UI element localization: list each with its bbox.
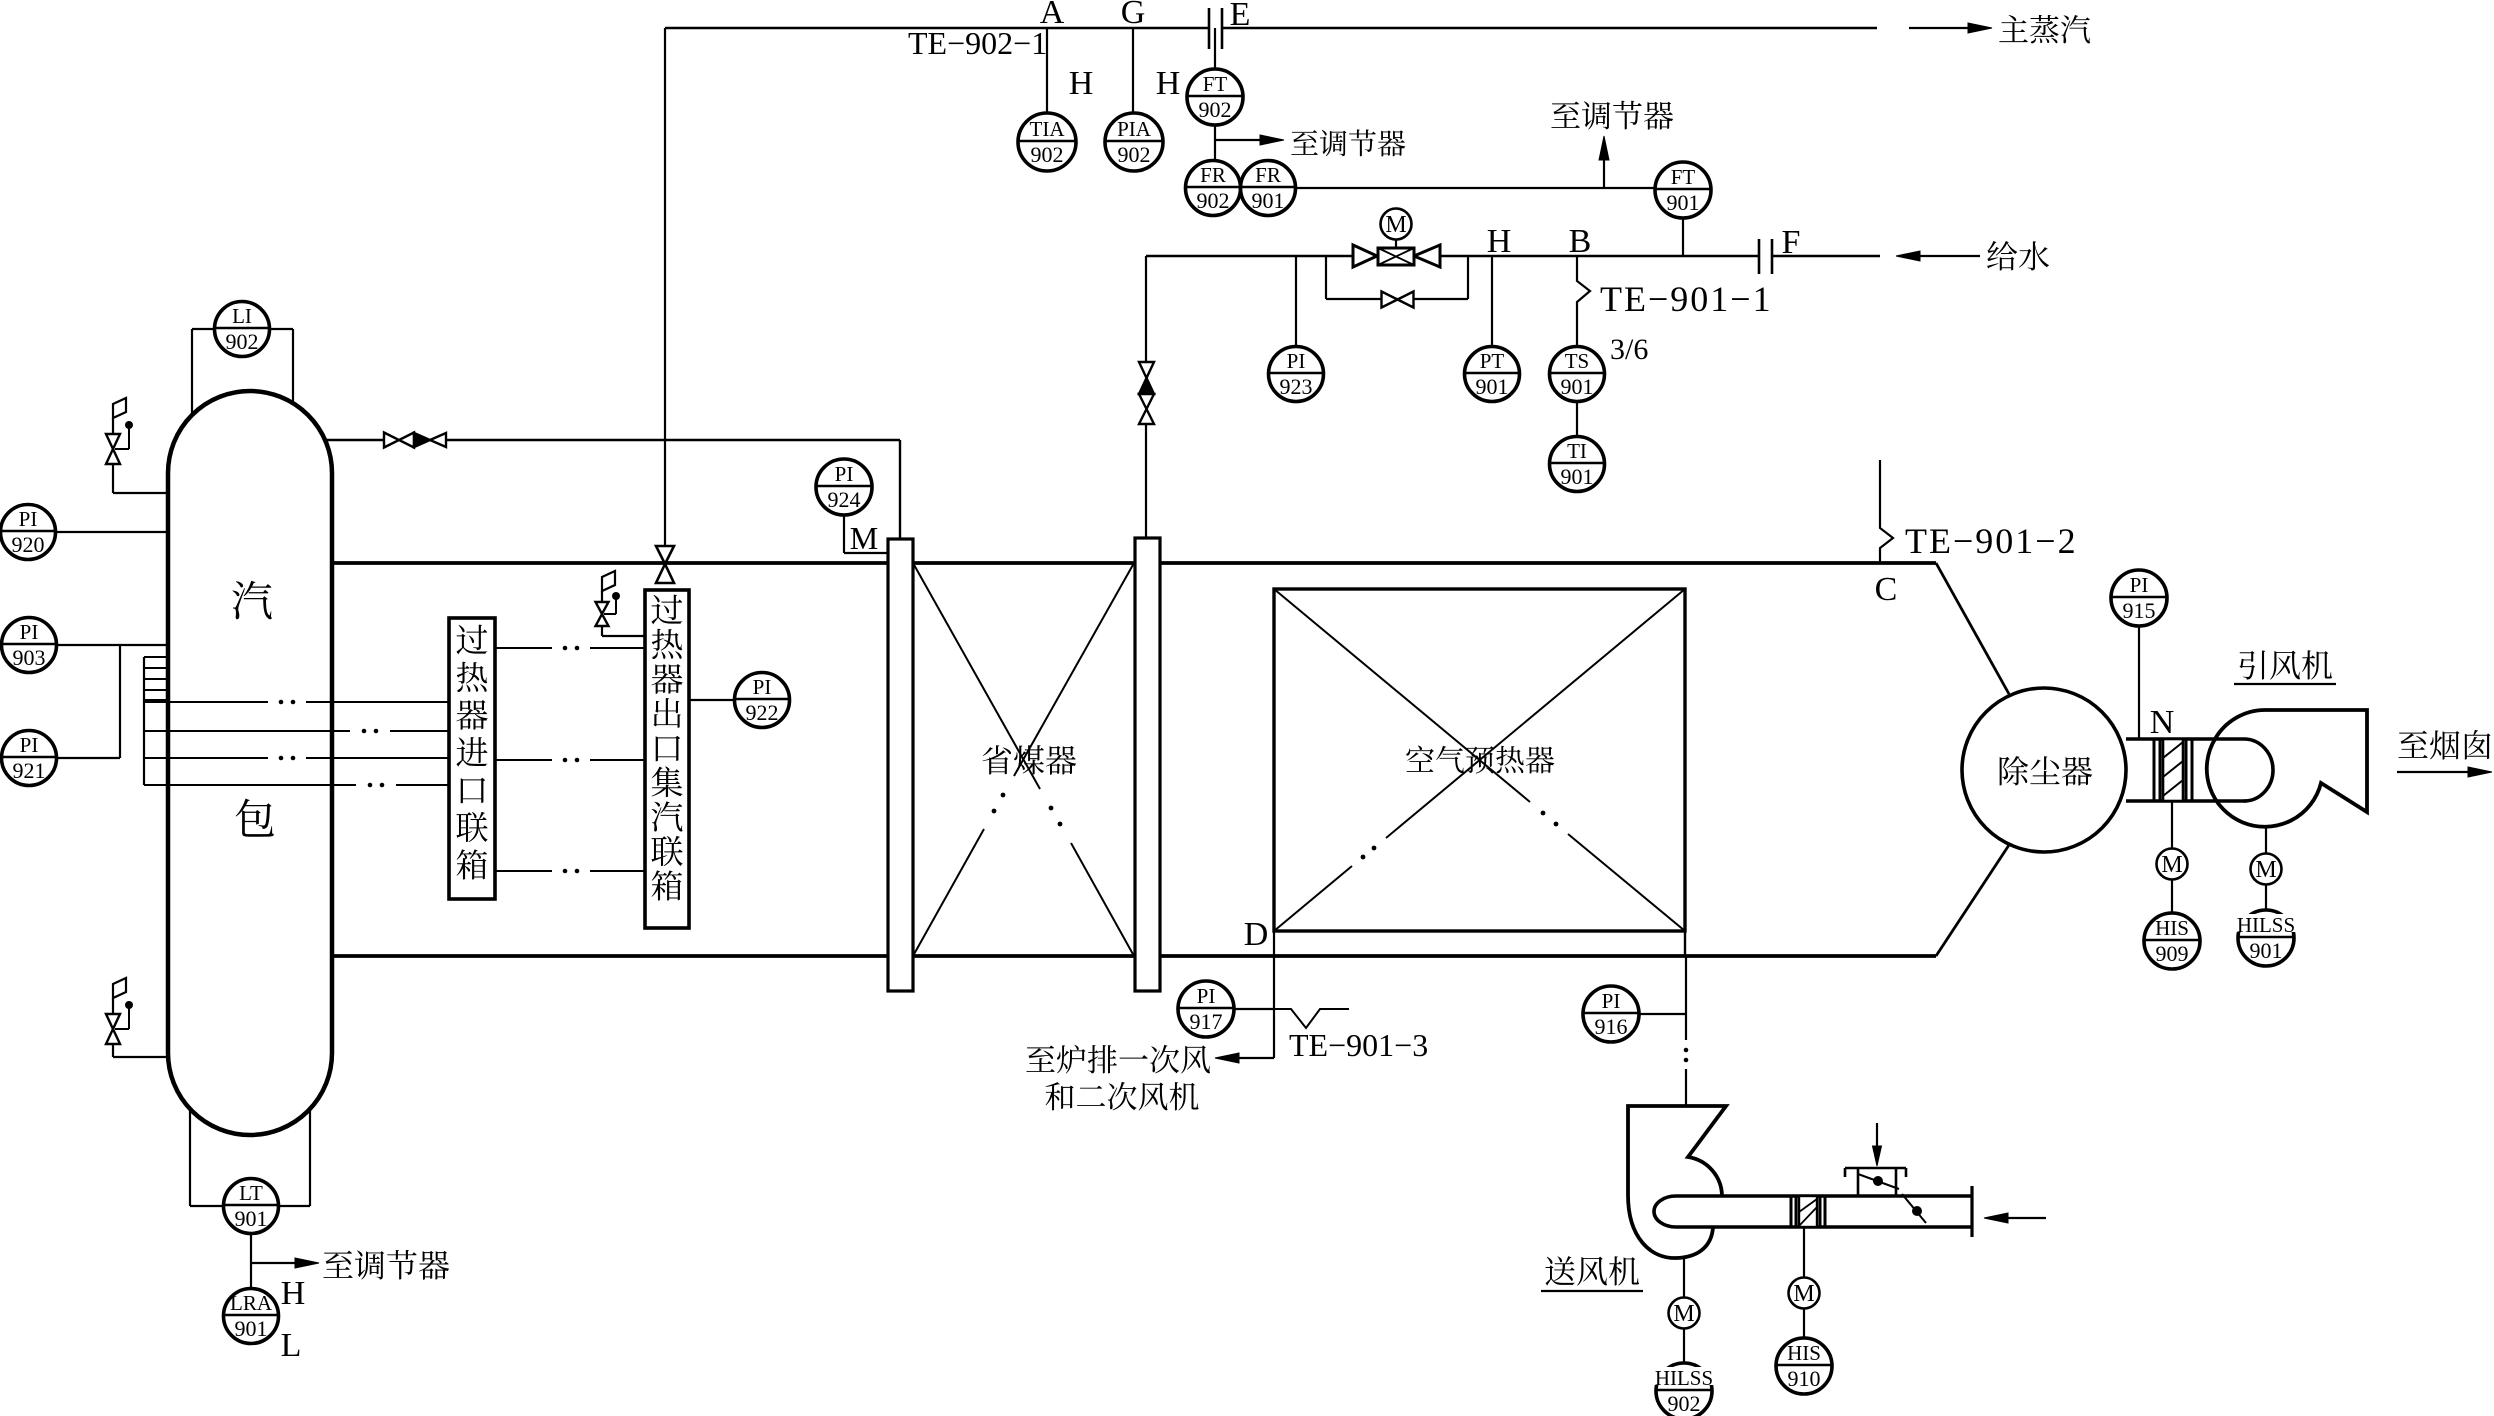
svg-text:LI: LI <box>232 304 252 328</box>
svg-text:902: 902 <box>226 329 259 354</box>
svg-text:TE−902−1: TE−902−1 <box>908 25 1047 61</box>
svg-text:924: 924 <box>828 487 861 512</box>
svg-text:917: 917 <box>1190 1009 1223 1034</box>
svg-text:HILSS: HILSS <box>2237 913 2295 937</box>
svg-text:LRA: LRA <box>230 1291 273 1315</box>
svg-text:M: M <box>2161 852 2182 878</box>
svg-text:901: 901 <box>1476 374 1509 399</box>
svg-text:LT: LT <box>239 1181 263 1205</box>
svg-text:B: B <box>1569 223 1592 260</box>
svg-text:H: H <box>1487 223 1512 260</box>
svg-text:902: 902 <box>1199 97 1232 122</box>
svg-text:PI: PI <box>1602 989 1621 1013</box>
svg-text:PT: PT <box>1480 349 1505 373</box>
svg-text:901: 901 <box>235 1316 268 1341</box>
svg-text:M: M <box>1673 1301 1694 1327</box>
svg-text:FR: FR <box>1200 163 1226 187</box>
svg-text:902: 902 <box>1118 142 1151 167</box>
svg-text:TS: TS <box>1565 349 1590 373</box>
svg-text:E: E <box>1230 0 1251 33</box>
svg-text:920: 920 <box>12 532 45 557</box>
svg-text:HIS: HIS <box>2155 916 2189 940</box>
svg-text:FR: FR <box>1255 163 1281 187</box>
svg-text:H: H <box>1156 65 1181 102</box>
svg-text:901: 901 <box>235 1206 268 1231</box>
svg-text:902: 902 <box>1031 142 1064 167</box>
svg-text:M: M <box>2255 857 2276 883</box>
svg-text:TIA: TIA <box>1030 117 1066 141</box>
svg-text:HILSS: HILSS <box>1655 1366 1713 1390</box>
svg-text:TI: TI <box>1567 439 1587 463</box>
svg-text:H: H <box>281 1275 306 1312</box>
svg-text:923: 923 <box>1280 374 1313 399</box>
svg-text:3/6: 3/6 <box>1610 333 1648 366</box>
svg-text:915: 915 <box>2123 598 2156 623</box>
svg-text:C: C <box>1875 571 1898 608</box>
svg-text:901: 901 <box>1252 188 1285 213</box>
svg-text:909: 909 <box>2156 941 2189 966</box>
svg-text:PIA: PIA <box>1117 117 1152 141</box>
svg-text:916: 916 <box>1595 1014 1628 1039</box>
svg-text:TE−901−2: TE−901−2 <box>1905 521 2078 561</box>
svg-text:901: 901 <box>1667 190 1700 215</box>
svg-text:901: 901 <box>1561 464 1594 489</box>
svg-text:D: D <box>1244 916 1269 953</box>
svg-text:922: 922 <box>746 700 779 725</box>
svg-text:M: M <box>850 520 878 556</box>
svg-text:PI: PI <box>753 675 772 699</box>
svg-text:901: 901 <box>2250 938 2283 963</box>
svg-text:N: N <box>2150 704 2175 741</box>
svg-text:PI: PI <box>1287 349 1306 373</box>
svg-text:903: 903 <box>13 645 46 670</box>
svg-text:910: 910 <box>1788 1366 1821 1391</box>
svg-text:901: 901 <box>1561 374 1594 399</box>
svg-text:L: L <box>281 1327 302 1364</box>
svg-text:FT: FT <box>1203 72 1228 96</box>
svg-text:PI: PI <box>20 620 39 644</box>
svg-text:PI: PI <box>835 462 854 486</box>
svg-text:FT: FT <box>1671 165 1696 189</box>
svg-text:TE−901−3: TE−901−3 <box>1289 1027 1428 1063</box>
svg-text:PI: PI <box>2130 573 2149 597</box>
svg-text:902: 902 <box>1668 1391 1701 1416</box>
svg-text:902: 902 <box>1197 188 1230 213</box>
svg-text:F: F <box>1782 224 1801 261</box>
svg-text:HIS: HIS <box>1787 1341 1821 1365</box>
svg-text:PI: PI <box>20 733 39 757</box>
svg-text:M: M <box>1385 212 1406 238</box>
svg-text:PI: PI <box>1197 984 1216 1008</box>
svg-text:G: G <box>1121 0 1146 31</box>
svg-text:TE−901−1: TE−901−1 <box>1600 279 1773 319</box>
svg-text:M: M <box>1793 1281 1814 1307</box>
svg-text:921: 921 <box>13 758 46 783</box>
svg-text:PI: PI <box>19 507 38 531</box>
svg-text:H: H <box>1069 65 1094 102</box>
